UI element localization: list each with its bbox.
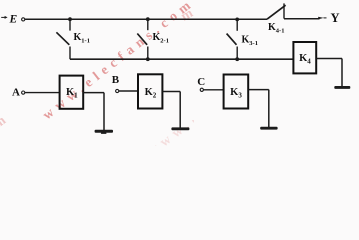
ground G3 (260, 127, 277, 130)
svg-text:B: B (112, 74, 120, 86)
wire: second rail (70, 58, 293, 60)
terminal circle A (22, 91, 25, 94)
wire K2 to ground (162, 92, 180, 129)
svg-text:Y: Y (331, 11, 340, 25)
relay coil K4 (293, 42, 316, 73)
terminal circle C (200, 88, 203, 91)
wire: short dash before Y (324, 17, 327, 19)
watermark fragment bottom-center (145, 33, 304, 158)
ground G2 (171, 127, 189, 130)
wire B to K2 (119, 90, 138, 92)
watermark tail fragment top-right of diagonal (178, 5, 196, 24)
wire: top rail left segment E to K4-1 (25, 18, 267, 20)
node junction dot top rail x=237 (235, 18, 239, 22)
wire: top rail right segment K4-1 to Y arrow (284, 18, 320, 20)
switch contact K1-1 (56, 19, 70, 59)
arrow at E input (1, 16, 7, 19)
svg-text:E: E (9, 13, 18, 25)
ground G4 (334, 86, 350, 89)
arrowhead to Y (318, 17, 323, 20)
wire C to K3 (203, 89, 223, 91)
node junction dot top rail x=148 (146, 17, 150, 21)
relay coil K2 (138, 74, 162, 108)
switch contact K2-1 (137, 19, 148, 59)
watermark www.elecfans.com main (40, 0, 198, 122)
node junction dot rail2 x=148 (146, 57, 150, 61)
wire K3 to ground (248, 90, 269, 128)
watermark tail fragment lower-left (0, 109, 12, 138)
relay coil K3 (224, 75, 249, 109)
switch contact K3-1 (227, 19, 238, 59)
svg-text:A: A (12, 86, 20, 98)
svg-text:C: C (197, 76, 205, 88)
relay coil K1 (60, 76, 84, 109)
wire K4 to ground (316, 59, 342, 87)
node junction dot top rail x=70 (68, 17, 72, 21)
terminal circle E (22, 18, 25, 21)
node junction dot rail2 x=237 (235, 57, 239, 61)
switch contact K4-1 (normally closed, in series) (267, 3, 286, 19)
terminal circle B (116, 89, 119, 92)
wire K1 to ground (83, 93, 104, 131)
ground G1 (95, 130, 113, 134)
wire A to K1 (25, 92, 60, 94)
